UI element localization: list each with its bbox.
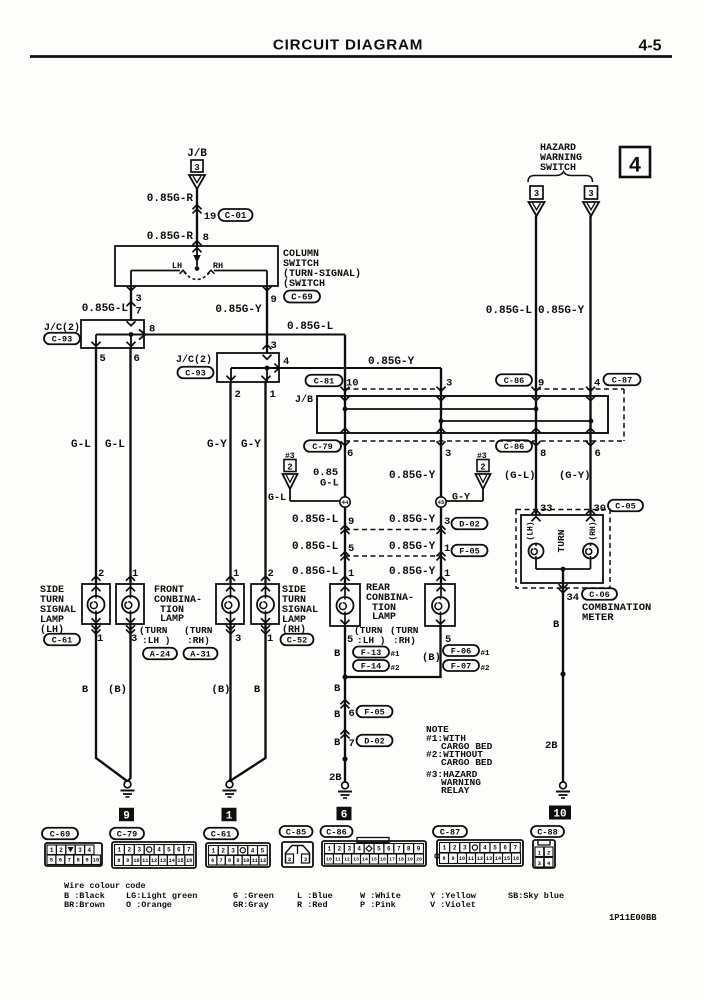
svg-text:18: 18 — [398, 857, 404, 863]
svg-text:G-L: G-L — [105, 439, 125, 451]
svg-text:TURN: TURN — [556, 529, 567, 552]
svg-text:6: 6 — [503, 845, 507, 852]
svg-text:16: 16 — [186, 858, 192, 864]
svg-text:3: 3 — [78, 847, 82, 854]
svg-text:11: 11 — [252, 858, 258, 864]
svg-text:8: 8 — [117, 858, 120, 864]
svg-text:11: 11 — [335, 857, 341, 863]
svg-text:13: 13 — [160, 858, 166, 864]
svg-text:3: 3 — [271, 340, 277, 352]
svg-text:8: 8 — [228, 858, 231, 864]
svg-text:11: 11 — [468, 856, 474, 862]
svg-text:6: 6 — [349, 708, 355, 720]
svg-text:METER: METER — [582, 612, 614, 624]
svg-text:J/B: J/B — [295, 394, 313, 406]
svg-text:1: 1 — [226, 810, 233, 822]
svg-text:3: 3 — [445, 448, 451, 460]
svg-text:5: 5 — [167, 847, 171, 854]
svg-text:1: 1 — [348, 568, 354, 580]
svg-text:LAMP: LAMP — [160, 614, 184, 625]
svg-text:9: 9 — [236, 858, 239, 864]
svg-text:G-Y: G-Y — [452, 493, 470, 504]
svg-text:R :Red: R :Red — [297, 900, 328, 910]
svg-text:10: 10 — [346, 378, 359, 390]
svg-text:2B: 2B — [545, 740, 558, 752]
svg-text:6: 6 — [211, 858, 214, 864]
svg-text:9: 9 — [538, 378, 544, 390]
svg-text:1: 1 — [444, 543, 450, 555]
svg-text::LH ): :LH ) — [357, 635, 386, 646]
svg-text:F-07: F-07 — [451, 662, 471, 672]
svg-text:3: 3 — [137, 847, 141, 854]
svg-text:3: 3 — [136, 293, 142, 305]
svg-text:9: 9 — [451, 856, 454, 862]
svg-text:G-L: G-L — [71, 439, 91, 451]
svg-text:GR:Gray: GR:Gray — [233, 900, 269, 910]
svg-text:8: 8 — [149, 324, 155, 336]
svg-text:3: 3 — [231, 847, 235, 854]
svg-text:1: 1 — [233, 568, 239, 580]
svg-text:C-87: C-87 — [440, 828, 460, 838]
svg-text:A-31: A-31 — [190, 650, 210, 660]
svg-text:6: 6 — [341, 809, 348, 821]
svg-text:7: 7 — [513, 845, 517, 852]
svg-text:4: 4 — [629, 154, 641, 177]
svg-text:7: 7 — [220, 858, 223, 864]
svg-text:20: 20 — [416, 857, 422, 863]
svg-text:15: 15 — [371, 857, 377, 863]
svg-text:0.85G-L: 0.85G-L — [292, 514, 339, 526]
svg-text:(LH): (LH) — [527, 521, 536, 540]
svg-text:2: 2 — [221, 847, 225, 854]
svg-text:5: 5 — [347, 634, 353, 646]
svg-text:B: B — [334, 709, 341, 721]
svg-text:10: 10 — [326, 857, 332, 863]
svg-text:O :Orange: O :Orange — [126, 900, 172, 910]
svg-text::LH ): :LH ) — [142, 635, 171, 646]
svg-text:12: 12 — [344, 857, 350, 863]
svg-text:SWITCH: SWITCH — [540, 163, 576, 174]
svg-text:C-69: C-69 — [291, 293, 313, 303]
svg-text:RH: RH — [213, 261, 223, 271]
svg-text:16: 16 — [513, 856, 519, 862]
svg-text:5: 5 — [100, 353, 106, 365]
svg-text:3: 3 — [444, 516, 450, 528]
svg-text:(G-L): (G-L) — [504, 470, 536, 482]
svg-text:2: 2 — [453, 845, 457, 852]
svg-text:19: 19 — [407, 857, 413, 863]
svg-text:6: 6 — [387, 846, 391, 853]
svg-text:12: 12 — [151, 858, 157, 864]
svg-text:3: 3 — [194, 163, 199, 173]
svg-text:V :Violet: V :Violet — [430, 900, 476, 910]
svg-text:0.85G-L: 0.85G-L — [292, 541, 339, 553]
svg-text:4: 4 — [157, 847, 161, 854]
svg-text:9: 9 — [417, 846, 421, 853]
svg-text:1: 1 — [212, 847, 216, 854]
svg-text:12: 12 — [477, 856, 483, 862]
svg-text:J/C(2): J/C(2) — [176, 354, 212, 366]
svg-text:0.85G-L: 0.85G-L — [292, 566, 339, 578]
svg-text:1: 1 — [444, 568, 450, 580]
svg-text:17: 17 — [389, 857, 395, 863]
svg-text:7: 7 — [187, 847, 191, 854]
svg-text:F-13: F-13 — [361, 648, 381, 658]
svg-text:3: 3 — [446, 378, 452, 390]
svg-text:0.85G-Y: 0.85G-Y — [389, 514, 436, 526]
svg-text:A-24: A-24 — [150, 650, 170, 660]
svg-text:10: 10 — [93, 857, 100, 864]
svg-text:0.85G-L: 0.85G-L — [82, 303, 129, 315]
svg-text:6: 6 — [134, 353, 140, 365]
svg-text:0.85G-L: 0.85G-L — [486, 305, 533, 317]
svg-text:4: 4 — [483, 845, 487, 852]
svg-text:2: 2 — [128, 847, 132, 854]
svg-text:10: 10 — [459, 856, 465, 862]
svg-text:1: 1 — [270, 389, 276, 401]
svg-text:5: 5 — [261, 847, 265, 854]
svg-text:C-01: C-01 — [225, 211, 247, 221]
svg-text:Wire colour code: Wire colour code — [64, 881, 146, 891]
svg-text:C-87: C-87 — [612, 376, 632, 386]
svg-text:C-86: C-86 — [504, 376, 524, 386]
svg-text:G-L: G-L — [268, 493, 286, 504]
svg-text:6: 6 — [347, 448, 353, 460]
svg-text:8: 8 — [442, 856, 445, 862]
svg-text:5: 5 — [377, 846, 381, 853]
svg-text:6: 6 — [59, 857, 62, 864]
svg-text:C-93: C-93 — [185, 369, 205, 379]
svg-text:3: 3 — [588, 189, 593, 199]
svg-text:8: 8 — [540, 448, 546, 460]
svg-text:1P11E00BB: 1P11E00BB — [609, 913, 657, 923]
svg-text:BR:Brown: BR:Brown — [64, 900, 105, 910]
svg-text:4: 4 — [283, 356, 289, 368]
svg-text:2B: 2B — [329, 772, 342, 784]
svg-text:C-61: C-61 — [211, 830, 231, 840]
svg-text:(B): (B) — [422, 652, 441, 664]
svg-text:15: 15 — [504, 856, 510, 862]
svg-text:2: 2 — [288, 856, 291, 863]
svg-text:45: 45 — [438, 499, 445, 506]
svg-text:16: 16 — [380, 857, 386, 863]
svg-text:B: B — [334, 683, 341, 695]
svg-text:C-61: C-61 — [52, 636, 72, 646]
svg-text:C-79: C-79 — [312, 442, 332, 452]
svg-text:12: 12 — [260, 858, 266, 864]
svg-text:B: B — [334, 648, 341, 660]
svg-text:B: B — [254, 684, 261, 696]
svg-text:1: 1 — [328, 846, 332, 853]
svg-text:2: 2 — [480, 462, 485, 472]
svg-text:9: 9 — [123, 810, 130, 822]
svg-text:C-05: C-05 — [615, 502, 635, 512]
svg-text:10: 10 — [243, 858, 249, 864]
svg-text:CARGO BED: CARGO BED — [441, 757, 493, 768]
svg-text:SB:Sky blue: SB:Sky blue — [508, 891, 564, 901]
svg-text:7: 7 — [397, 846, 401, 853]
svg-text:5: 5 — [493, 845, 497, 852]
svg-text:C-88: C-88 — [537, 828, 557, 838]
svg-text:10: 10 — [553, 808, 566, 820]
svg-text:F-06: F-06 — [451, 647, 471, 657]
svg-text:15: 15 — [177, 858, 183, 864]
svg-text:C-06: C-06 — [589, 590, 609, 600]
svg-text:14: 14 — [169, 858, 175, 864]
svg-text:4-5: 4-5 — [638, 38, 661, 55]
svg-text:(RH): (RH) — [589, 521, 598, 540]
svg-text:#1: #1 — [391, 651, 401, 659]
svg-text:0.85G-Y: 0.85G-Y — [368, 356, 415, 368]
svg-text:11: 11 — [142, 858, 148, 864]
svg-text:4: 4 — [594, 378, 600, 390]
svg-text:1: 1 — [443, 845, 447, 852]
svg-text:C-85: C-85 — [286, 828, 306, 838]
svg-text:3: 3 — [235, 633, 241, 645]
svg-text:13: 13 — [486, 856, 492, 862]
svg-text:7: 7 — [349, 738, 355, 750]
svg-text:C-93: C-93 — [52, 335, 72, 345]
svg-text:9: 9 — [126, 858, 129, 864]
svg-text:9: 9 — [348, 516, 354, 528]
svg-text:9: 9 — [85, 857, 88, 864]
svg-text:2: 2 — [547, 850, 550, 857]
svg-text:14: 14 — [362, 857, 368, 863]
svg-text:C-86: C-86 — [504, 442, 524, 452]
svg-text:1: 1 — [267, 633, 273, 645]
svg-text:#2: #2 — [481, 665, 491, 673]
svg-text:D-02: D-02 — [364, 737, 384, 747]
svg-text:F-05: F-05 — [459, 547, 479, 557]
svg-text:(B): (B) — [108, 684, 127, 696]
svg-text:5: 5 — [348, 543, 354, 555]
svg-text:G-Y: G-Y — [241, 439, 261, 451]
svg-text:C-69: C-69 — [50, 830, 70, 840]
svg-text::RH): :RH) — [187, 635, 210, 646]
svg-text:6: 6 — [177, 847, 181, 854]
svg-text:LAMP: LAMP — [372, 612, 396, 623]
svg-text:34: 34 — [567, 592, 580, 604]
svg-text:13: 13 — [353, 857, 359, 863]
svg-text::RH): :RH) — [393, 635, 416, 646]
svg-text:D-02: D-02 — [459, 520, 479, 530]
svg-text:2: 2 — [287, 462, 292, 472]
svg-text:6: 6 — [595, 448, 601, 460]
svg-text:1: 1 — [50, 847, 54, 854]
svg-text:0.85G-R: 0.85G-R — [147, 231, 194, 243]
svg-text:8: 8 — [407, 846, 411, 853]
svg-text:4: 4 — [357, 846, 361, 853]
svg-text:CIRCUIT DIAGRAM: CIRCUIT DIAGRAM — [273, 37, 423, 54]
svg-text:#1: #1 — [481, 650, 491, 658]
svg-text:0.85G-Y: 0.85G-Y — [389, 566, 436, 578]
svg-text:0.85G-L: 0.85G-L — [287, 321, 334, 333]
svg-text:C-79: C-79 — [117, 830, 137, 840]
svg-text:10: 10 — [133, 858, 139, 864]
svg-text:0.85G-Y: 0.85G-Y — [389, 470, 436, 482]
svg-text:2: 2 — [59, 847, 63, 854]
svg-text:(G-Y): (G-Y) — [559, 470, 591, 482]
svg-text:P :Pink: P :Pink — [360, 900, 396, 910]
svg-text:1: 1 — [118, 847, 122, 854]
svg-text:9: 9 — [271, 294, 277, 306]
svg-text:G-Y: G-Y — [207, 439, 227, 451]
svg-text:2: 2 — [338, 846, 342, 853]
svg-text:3: 3 — [347, 846, 351, 853]
svg-text:(B): (B) — [212, 684, 231, 696]
svg-text:0.85G-Y: 0.85G-Y — [538, 305, 585, 317]
svg-text:G-L: G-L — [320, 478, 339, 490]
svg-text:8: 8 — [203, 232, 209, 244]
svg-text:C-81: C-81 — [314, 377, 334, 387]
svg-text:B: B — [334, 737, 341, 749]
svg-text:3: 3 — [463, 845, 467, 852]
svg-text:C-52: C-52 — [287, 636, 307, 646]
svg-text:14: 14 — [495, 856, 501, 862]
svg-text:1: 1 — [97, 633, 103, 645]
svg-text:(SWITCH: (SWITCH — [283, 278, 325, 290]
svg-text:B: B — [82, 684, 89, 696]
svg-text:7: 7 — [68, 857, 71, 864]
svg-text:3: 3 — [131, 633, 137, 645]
svg-text:B: B — [553, 619, 560, 631]
svg-text:4: 4 — [251, 847, 255, 854]
svg-text:J/B: J/B — [187, 148, 207, 160]
svg-text:2: 2 — [235, 389, 241, 401]
svg-text:RELAY: RELAY — [441, 785, 470, 796]
svg-text:44: 44 — [342, 499, 349, 506]
svg-text:F-05: F-05 — [364, 708, 384, 718]
svg-text:4: 4 — [87, 847, 91, 854]
svg-text:0.85G-Y: 0.85G-Y — [215, 304, 262, 316]
svg-text:#2: #2 — [391, 665, 401, 673]
svg-text:0.85G-Y: 0.85G-Y — [389, 541, 436, 553]
svg-text:LH: LH — [172, 261, 182, 271]
svg-text:3: 3 — [534, 189, 539, 199]
svg-text:7: 7 — [136, 306, 142, 318]
svg-text:19: 19 — [204, 211, 217, 223]
svg-text:C-86: C-86 — [326, 828, 346, 838]
svg-text:F-14: F-14 — [361, 662, 381, 672]
svg-text:0.85G-R: 0.85G-R — [147, 193, 194, 205]
